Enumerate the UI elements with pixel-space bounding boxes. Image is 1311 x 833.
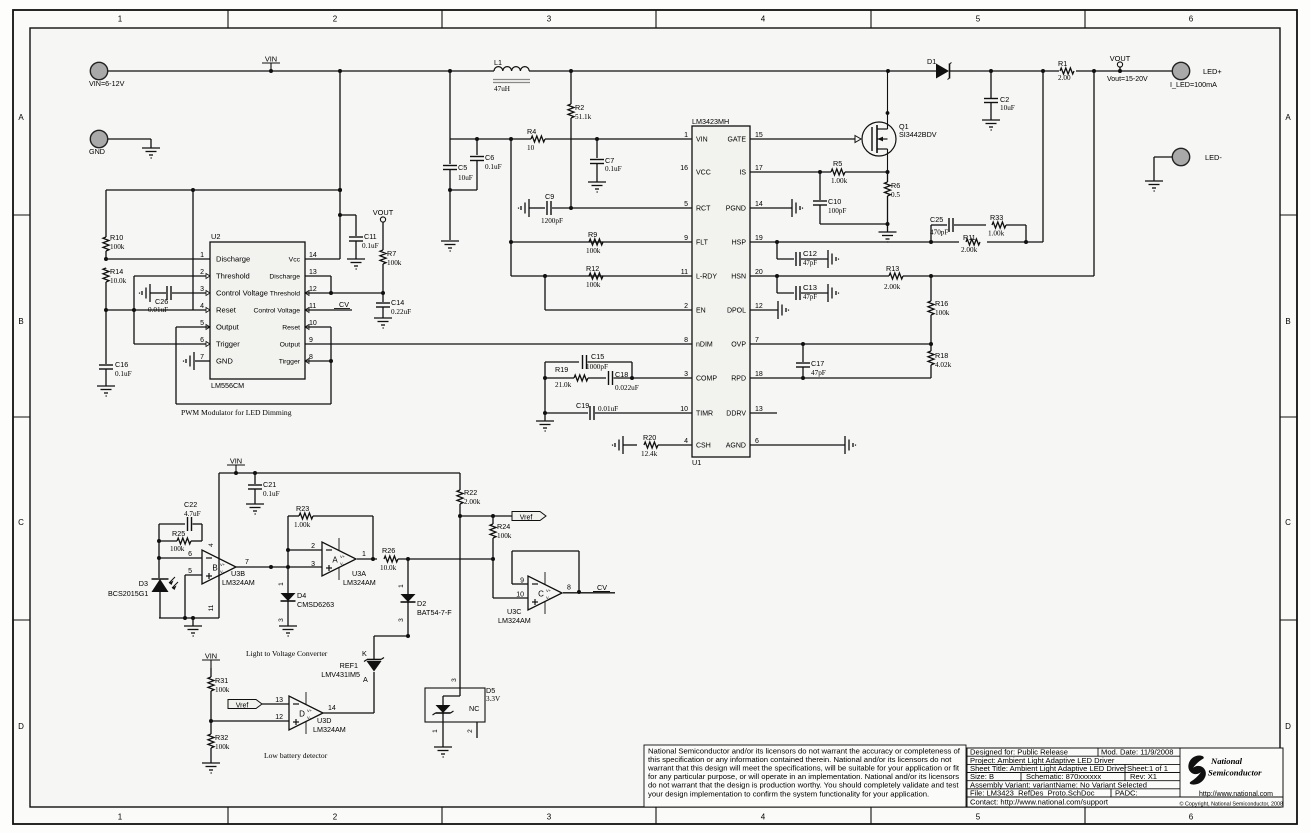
wire U2 pin9 Output to nDIM [305,343,692,345]
svg-text:C21: C21 [263,480,276,489]
capacitor C11 0.1uF [340,215,379,259]
svg-text:10uF: 10uF [458,174,473,182]
svg-text:V-: V- [546,595,550,600]
svg-text:R19: R19 [555,365,568,374]
svg-text:4: 4 [200,303,204,310]
resistor R14 10.0k [103,267,127,312]
svg-text:47uH: 47uH [494,85,510,93]
svg-text:U2: U2 [211,232,220,241]
capacitor C25 470pF and resistor R33 1.00k [930,213,1026,242]
svg-text:3: 3 [311,561,315,568]
net label VIN lower [227,457,245,476]
wire DDRV stub [750,412,777,414]
capacitor C15 1000pF [545,352,632,378]
svg-text:R4: R4 [527,127,536,136]
svg-text:CSH: CSH [696,443,711,450]
capacitor C13 47pF [775,274,839,302]
wire U3C output CV [563,583,615,593]
svg-text:10.0k: 10.0k [380,564,397,572]
svg-text:Vref: Vref [236,703,249,710]
svg-text:I_LED=100mA: I_LED=100mA [1170,80,1217,89]
svg-text:OVP: OVP [731,342,746,349]
svg-text:19: 19 [755,235,763,242]
svg-text:C6: C6 [485,153,494,162]
svg-text:National: National [1210,756,1243,766]
svg-text:C17: C17 [811,359,824,368]
svg-text:4.7uF: 4.7uF [184,510,201,518]
svg-text:EN: EN [696,308,706,315]
svg-text:V+: V+ [340,554,346,559]
shunt reference REF1 LMV431IM5 [321,649,384,713]
svg-text:2: 2 [333,15,338,24]
connector GND [89,130,108,156]
ground at C16 [97,386,115,396]
svg-text:LED-: LED- [1205,153,1222,162]
wire U2 pin12 Threshold [305,291,385,295]
wire VIN rail lower [219,471,460,475]
svg-text:Control Voltage: Control Voltage [216,289,268,298]
svg-text:13: 13 [309,269,317,276]
resistor R1 2.00 [1041,59,1096,82]
capacitor C12 47pF [777,242,839,268]
svg-text:GND: GND [216,357,233,366]
svg-text:GATE: GATE [727,137,746,144]
svg-text:D5: D5 [486,686,495,695]
svg-text:Vout=15-20V: Vout=15-20V [1107,76,1148,83]
wire long vertical to D5 [459,516,461,688]
svg-text:C12: C12 [803,249,817,258]
svg-text:1: 1 [684,132,688,139]
net label VIN detector [202,652,220,669]
svg-text:10: 10 [309,320,317,327]
resistor R9 100k [586,230,603,255]
ground sideways at U2 pin7 [184,352,195,370]
svg-text:C: C [1285,518,1291,527]
wire PGND with sideways ground [750,199,803,217]
svg-text:47pF: 47pF [803,294,817,301]
ground at C7 [588,182,606,192]
svg-text:R32: R32 [215,733,228,742]
svg-text:Semiconductor: Semiconductor [1208,768,1262,778]
svg-text:LM3423MH: LM3423MH [692,117,729,126]
svg-text:8: 8 [567,585,571,592]
wire Vref net [460,514,512,518]
wire AGND with sideways ground [750,436,856,454]
svg-text:K: K [362,649,367,658]
svg-text:C25: C25 [930,215,943,224]
svg-text:R31: R31 [215,676,228,685]
wire to U3C pin10 [493,559,528,598]
svg-text:470pF: 470pF [930,229,948,237]
svg-text:6: 6 [1189,15,1194,24]
svg-text:12.4k: 12.4k [641,450,658,458]
svg-text:0.1uF: 0.1uF [115,370,132,378]
svg-text:14: 14 [309,252,317,259]
svg-text:12: 12 [755,303,763,310]
svg-text:Contact: http://www.national.: Contact: http://www.national.com/support [970,798,1109,807]
svg-text:0.1uF: 0.1uF [485,163,502,171]
ground at C14 [374,318,392,328]
junction rail x450 [448,69,452,73]
svg-text:3: 3 [398,618,405,622]
svg-text:5: 5 [684,201,688,208]
resistor R4 10 [527,127,545,152]
svg-text:11: 11 [681,269,688,276]
diode D4 CMSD6263 [278,582,334,626]
ground at U3B [184,626,202,636]
wire U3D output to REF1 anode [323,712,374,714]
wire OVP net [750,342,931,346]
svg-text:8: 8 [684,337,688,344]
svg-text:12: 12 [275,714,283,721]
svg-text:Reset: Reset [216,306,237,315]
svg-text:BCS2015G1: BCS2015G1 [108,589,148,598]
svg-text:LM324AM: LM324AM [222,578,255,587]
wire VIN rail [108,70,1172,72]
wire R23 feedback vertical [286,516,322,593]
svg-text:2: 2 [333,813,338,822]
svg-text:C: C [538,589,544,598]
svg-text:1000pF: 1000pF [586,363,608,371]
svg-text:B: B [1285,317,1290,326]
svg-text:D: D [1285,722,1291,731]
resistor R18 4.02k [750,344,952,378]
resistor R23 1.00k [288,504,375,561]
svg-text:R22: R22 [464,488,477,497]
svg-text:15: 15 [755,132,763,139]
svg-text:R16: R16 [935,299,948,308]
svg-text:R2: R2 [575,103,584,112]
svg-text:100k: 100k [935,309,950,317]
ground at LED- [1145,181,1163,191]
op-amp U3C LM324AM [498,572,571,625]
svg-text:3: 3 [684,371,688,378]
op-amp U3A LM324AM [311,538,376,587]
svg-text:4: 4 [684,438,688,445]
svg-text:U3B: U3B [231,569,245,578]
capacitor C21 0.1uF [248,473,280,504]
resistor R32 100k [208,721,230,763]
svg-text:17: 17 [755,165,763,172]
capacitor C9 1200pF with sideways ground [519,192,693,225]
svg-text:1: 1 [118,813,123,822]
svg-text:DPOL: DPOL [727,308,746,315]
svg-text:3: 3 [547,813,552,822]
svg-text:1: 1 [118,15,123,24]
wire U3D pin12 [211,720,289,722]
svg-text:10uF: 10uF [1000,104,1015,112]
svg-text:V+: V+ [307,708,313,713]
svg-text:C11: C11 [364,232,377,241]
wire U3B feedback left vertical [157,524,202,578]
svg-text:Low battery detector: Low battery detector [264,751,328,760]
svg-text:C10: C10 [828,197,841,206]
svg-text:100k: 100k [497,532,512,540]
svg-text:Output: Output [280,342,301,349]
svg-text:10.0k: 10.0k [110,277,127,285]
svg-text:A: A [1285,113,1291,122]
svg-text:COMP: COMP [696,376,717,383]
wire U3B V+ V- vertical [208,473,219,618]
wire D2 to REF1 loop [374,634,410,659]
resistor R12 100k [586,264,603,289]
resistor R22 2.00k [457,473,481,518]
svg-text:CV: CV [339,300,349,309]
diode D1 [927,57,952,80]
ground at C5/C6 [441,241,459,251]
transistor Q1 SI3442BDV [862,71,937,172]
svg-text:3: 3 [547,15,552,24]
svg-text:16: 16 [680,165,688,172]
svg-text:R13: R13 [886,264,899,273]
svg-text:TIMR: TIMR [696,411,713,418]
svg-text:R10: R10 [110,233,123,242]
svg-text:1.00k: 1.00k [831,177,848,185]
capacitor C26 0.01uF [140,284,211,314]
inductor L1 47uH [493,58,530,93]
svg-text:RPD: RPD [731,376,746,383]
U1 pin labels [680,132,763,450]
svg-text:A: A [363,675,368,684]
svg-text:AGND: AGND [726,443,746,450]
resistor R2 51.1k [568,71,592,208]
svg-text:R6: R6 [891,181,900,190]
resistor R24 100k [490,516,512,559]
capacitor C5 10uF [443,139,473,192]
ground at COMP/TIMR [536,413,554,431]
svg-text:0.5: 0.5 [891,191,900,199]
svg-text:10: 10 [516,592,524,599]
wire U3B output [236,565,322,569]
svg-text:D: D [299,709,305,718]
svg-text:21.0k: 21.0k [555,381,572,389]
wire U2 pin14 Vcc [305,71,342,259]
svg-text:LMV431IM5: LMV431IM5 [321,670,360,679]
svg-text:9: 9 [684,235,688,242]
capacitor C17 47pF [796,344,826,380]
svg-text:U3D: U3D [317,716,331,725]
wire DPOL with sideways ground [750,301,789,319]
connector LED- [1172,148,1222,165]
svg-text:C22: C22 [184,500,197,509]
svg-text:B: B [212,563,217,572]
ground at Q1 source [879,224,897,242]
svg-text:6: 6 [200,337,204,344]
IC U2 LM556CM box [210,232,305,390]
svg-text:4: 4 [761,15,766,24]
svg-text:9: 9 [309,337,313,344]
svg-text:VCC: VCC [696,170,711,177]
svg-text:LM556CM: LM556CM [211,381,244,390]
svg-text:5: 5 [976,15,981,24]
svg-text:C26: C26 [155,297,168,306]
net flag Vref detector [228,700,289,710]
resistor R7 100k [380,222,402,293]
svg-text:C16: C16 [115,360,128,369]
svg-text:PADC:: PADC: [1115,789,1138,798]
svg-text:File: LM3423_RefDes_Proto.SchD: File: LM3423_RefDes_Proto.SchDoc [970,789,1095,798]
net flag Vref right [512,512,546,522]
wire C5 to ground [449,190,451,240]
svg-text:R1: R1 [1058,59,1067,68]
wire U2 pin4 Reset net y310 [106,308,210,312]
op-amp U3B LM324AM [188,546,255,588]
svg-text:Threshold: Threshold [270,291,300,298]
svg-text:your design implementation to: your design implementation to confirm th… [648,789,929,798]
zener D5 3.3V box [425,686,501,747]
svg-text:Tirgger: Tirgger [279,359,301,366]
svg-text:2: 2 [467,729,474,733]
wire L-RDY net [511,242,692,278]
svg-text:D4: D4 [297,591,306,600]
svg-text:12: 12 [309,286,317,293]
svg-text:IS: IS [739,170,746,177]
svg-text:13: 13 [755,406,763,413]
wire COMP net with R19 C18 [543,362,692,385]
ground at C21 [246,504,264,514]
svg-text:V+: V+ [220,562,226,567]
svg-text:CMSD6263: CMSD6263 [297,600,334,609]
svg-text:D2: D2 [417,599,426,608]
svg-text:5: 5 [188,568,192,575]
svg-text:V+: V+ [546,588,552,593]
svg-text:R5: R5 [833,159,842,168]
ground at C11 [347,259,365,269]
svg-text:C7: C7 [605,156,614,165]
svg-text:C18: C18 [615,370,628,379]
svg-text:C15: C15 [591,352,604,361]
svg-text:U3C: U3C [507,607,521,616]
svg-text:3: 3 [278,618,285,622]
svg-text:6: 6 [1189,813,1194,822]
wire IS net [750,170,890,174]
svg-text:1200pF: 1200pF [541,217,563,225]
svg-text:Light to Voltage Converter: Light to Voltage Converter [246,649,328,658]
svg-text:A: A [332,555,338,564]
svg-text:R18: R18 [935,351,948,360]
svg-text:1.00k: 1.00k [988,230,1005,238]
svg-text:11: 11 [208,604,215,611]
svg-text:LM324AM: LM324AM [313,725,346,734]
svg-text:U3A: U3A [352,569,366,578]
capacitor C18 0.022uF label [615,370,639,392]
ground at GND connector [142,148,160,158]
wire GND to ground [108,139,151,148]
svg-text:0.01uF: 0.01uF [598,405,618,413]
svg-text:R20: R20 [643,433,656,442]
title block table [967,748,1283,807]
resistor R31 100k [208,668,230,723]
wire U3B pin5 return [185,575,202,618]
svg-text:R14: R14 [110,267,123,276]
svg-text:VOUT: VOUT [373,208,394,217]
wire U2 pin1 Discharge [106,258,210,260]
svg-text:SI3442BDV: SI3442BDV [899,130,937,139]
disclaimer text block [644,745,966,807]
svg-text:R11: R11 [963,233,976,242]
svg-text:13: 13 [275,697,283,704]
resistor R20 12.4k with sideways ground [613,433,693,458]
svg-text:100k: 100k [170,545,185,553]
wire EN net [545,276,692,310]
svg-text:1: 1 [278,582,285,586]
junction rail x340 [338,69,342,73]
resistor R19 21.0k label [555,365,572,389]
svg-text:NC: NC [469,704,479,713]
svg-text:8: 8 [309,354,313,361]
svg-text:Discharge: Discharge [216,255,250,264]
svg-text:A: A [18,113,24,122]
connector LED+ I_LED=100mA [1170,62,1222,89]
svg-text:100k: 100k [387,259,402,267]
net flag VOUT mid [373,208,394,222]
wire LED- to ground [1154,157,1172,181]
svg-text:PWM Modulator for LED Dimming: PWM Modulator for LED Dimming [181,408,292,417]
svg-text:REF1: REF1 [340,661,358,670]
svg-text:LM324AM: LM324AM [343,578,376,587]
svg-text:R24: R24 [497,522,510,531]
svg-text:U1: U1 [692,458,701,467]
svg-text:0.022uF: 0.022uF [615,384,639,392]
svg-text:VIN: VIN [205,652,217,661]
svg-text:100k: 100k [215,686,230,694]
svg-text:1: 1 [362,551,366,558]
svg-text:6: 6 [188,551,192,558]
svg-text:Vcc: Vcc [289,257,301,264]
capacitor C7 0.1uF [590,139,622,182]
capacitor C16 0.1uF [99,310,132,386]
svg-text:3: 3 [200,286,204,293]
svg-text:0.1uF: 0.1uF [362,242,379,250]
svg-text:100k: 100k [586,281,601,289]
capacitor C6 0.1uF [450,139,502,190]
svg-text:LED+: LED+ [1203,67,1222,76]
svg-text:3: 3 [451,678,458,682]
U2 pin labels [200,252,317,366]
junction rail x571 [569,69,573,73]
svg-text:FLT: FLT [696,240,709,247]
wire U3B ground bus [159,616,219,626]
wire TIMR net with C19 [543,378,692,420]
svg-text:2.00k: 2.00k [464,498,481,506]
svg-text:0.1uF: 0.1uF [605,165,622,173]
svg-text:VIN: VIN [265,55,277,64]
svg-text:DDRV: DDRV [726,411,746,418]
svg-text:47pF: 47pF [811,369,826,377]
IC U1 LM3423MH box [692,117,750,467]
svg-text:10: 10 [527,144,535,152]
svg-text:Threshold: Threshold [216,272,250,281]
svg-text:VIN: VIN [696,137,708,144]
resistor R25 100k [159,529,202,553]
svg-text:14: 14 [328,705,336,712]
svg-text:0.22uF: 0.22uF [391,308,411,316]
wire net y190 [106,188,342,192]
svg-text:Trigger: Trigger [216,340,240,349]
svg-text:GND: GND [89,147,105,156]
capacitor C14 0.22uF [376,293,411,318]
svg-text:R33: R33 [990,213,1003,222]
svg-text:Vref: Vref [520,515,533,522]
svg-text:2.00: 2.00 [1058,74,1071,82]
ground at D4 [279,626,297,636]
svg-text:R9: R9 [588,230,597,239]
svg-text:1: 1 [432,729,439,733]
svg-text:7: 7 [245,559,249,566]
U2 pin input arrows [206,274,309,364]
resistor R5 1.00k [831,159,848,185]
resistor R10 100k [103,190,125,261]
